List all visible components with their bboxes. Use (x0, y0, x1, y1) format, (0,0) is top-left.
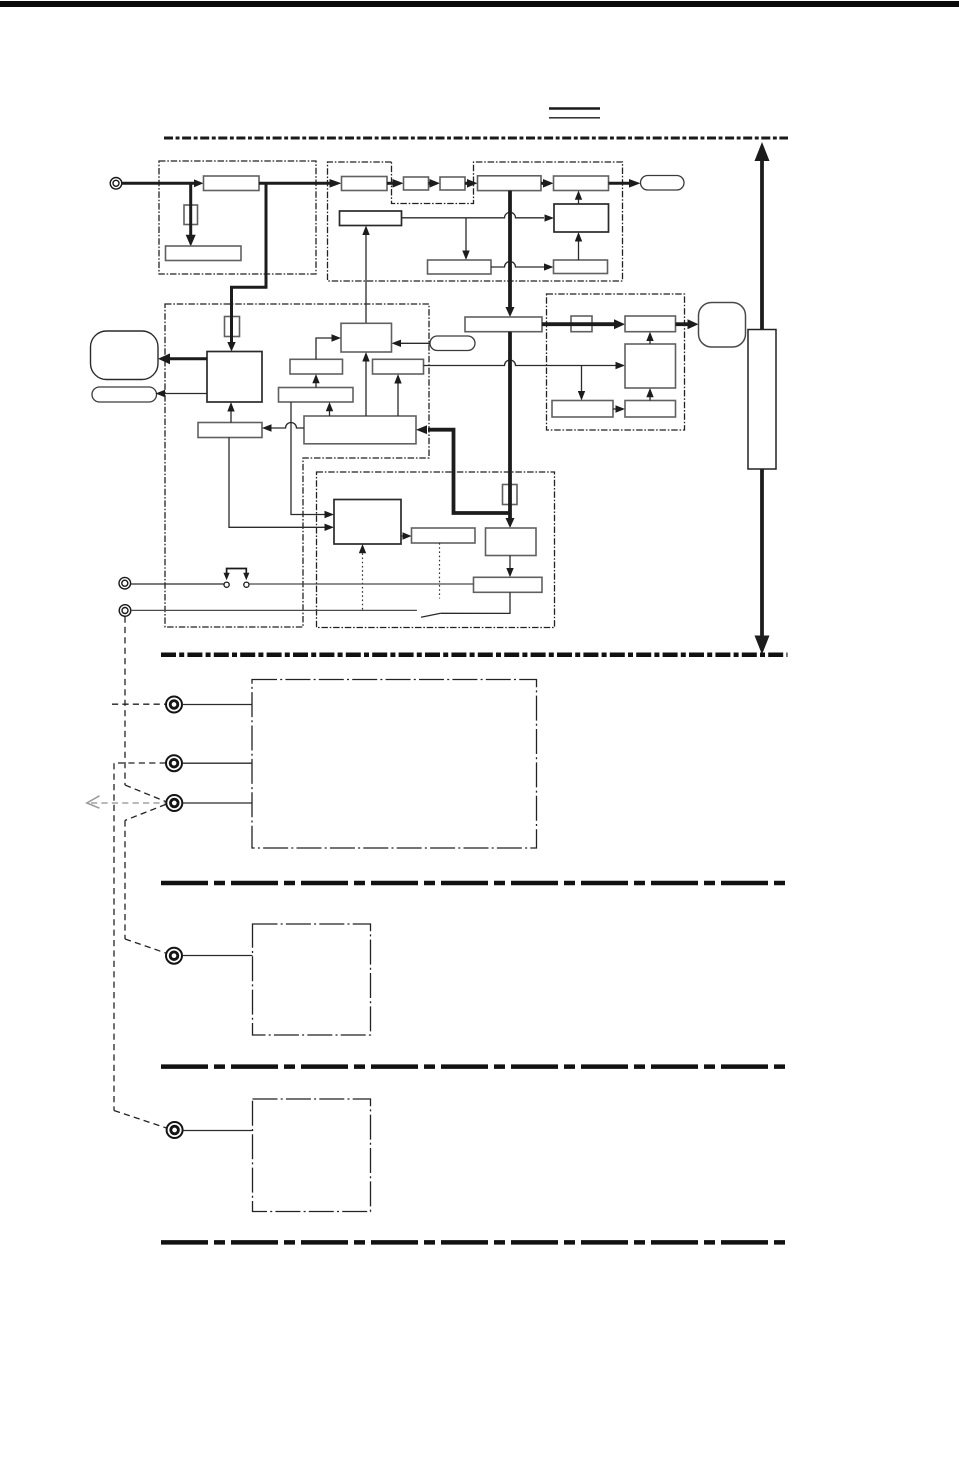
wire: discriminator up to limiter (578, 242, 580, 261)
antenna input connector (110, 178, 122, 190)
block: chroma amp (341, 323, 392, 352)
block: AGC detector (166, 246, 242, 261)
connector: section4 jack (167, 1122, 183, 1138)
block: video output amp (square) (207, 352, 262, 403)
wire: jack to unit T (183, 1130, 253, 1132)
block: limiter (554, 204, 609, 232)
page header rule (0, 1, 959, 7)
wire: ref osc to discriminator with jump (491, 262, 544, 268)
fuse: video branch (225, 317, 240, 337)
wire: audio amp up to audio output (649, 341, 651, 344)
wire: thick branch to chroma osc (428, 430, 510, 513)
section 2 unit box (dash-dot) (252, 680, 537, 849)
wire: tone up to audio amp (649, 397, 651, 401)
grey dashed feed arrow at connector 5 (87, 796, 166, 808)
wire: brightness to video out (230, 412, 232, 423)
wire: IF3 to video det (thick) (465, 182, 468, 185)
wire: video out to stadium (thin) (165, 393, 207, 395)
dashed link to connector 4 (114, 763, 166, 1111)
dashed diagonal into connector 7 (114, 1111, 167, 1129)
block: chroma osc (wide) (304, 416, 416, 444)
dashed chevron lower from connector 5 (125, 804, 166, 820)
wire: osc to brightness with jump (272, 423, 305, 429)
terminal: speaker (stadium) (641, 176, 685, 191)
dashed diagonal into connector 6 (125, 939, 166, 953)
wire: osc up to chroma amp (365, 362, 367, 417)
wire: IF2 to IF3 (thick) (429, 182, 432, 185)
wire: jack to unit S (182, 955, 252, 957)
wire: carrier up from sync sep to AFT (365, 235, 367, 324)
switch terminal b (244, 582, 249, 587)
fuse: bus line (503, 485, 518, 505)
section 4 unit box (dash-dot) (253, 1099, 371, 1212)
block: deemphasis (552, 401, 613, 418)
block: tone (625, 401, 676, 418)
wire: branch down to ref osc (465, 218, 467, 251)
wire: limiter up to audio IF amp (578, 200, 580, 205)
bus double-headed arrow (755, 142, 770, 655)
wire: line 2 open run (131, 609, 417, 611)
group: tuner block (dash-dot) (159, 161, 316, 274)
wire: IF1 to IF2 (thick) (387, 182, 394, 185)
block: audio output (625, 316, 676, 332)
wire: tint stadium to chroma amp (401, 342, 430, 344)
wire: jack2 to unit R (182, 762, 251, 764)
block: IF amp 3 (440, 177, 465, 190)
group: video/chroma L-shaped block (dash-dot) (165, 304, 429, 627)
wire: osc up to APC (329, 411, 331, 416)
dashed control drop from connector 2 (124, 617, 126, 786)
block: sync separator P (334, 500, 401, 545)
block: audio amp (big, right group) (625, 344, 676, 388)
block: video detector (wide) (478, 176, 542, 191)
block: reference oscillator (428, 260, 492, 274)
connector: ext line 2 (119, 605, 131, 617)
block: discriminator (554, 260, 608, 274)
dashed chevron upper into connector 5 (125, 785, 166, 802)
wire: APC up to burst gate (315, 383, 317, 388)
section separator 1 (161, 653, 788, 658)
block: IF amp 2 (404, 177, 429, 190)
group: audio output block (dash-dot) (547, 294, 685, 430)
wire: jack3 to unit R (183, 802, 252, 804)
wire: P to Q (401, 535, 403, 537)
connector: section2 jack 3 (166, 795, 182, 811)
block: IF amp 1 (342, 177, 388, 191)
block: tuner (204, 176, 260, 191)
wire: video det to amp (thick) (541, 182, 544, 185)
group: IF block with notch (dash-dot) (328, 162, 623, 281)
wire: bus down from video detector (thick) (508, 191, 512, 308)
wire: APC down to sync P (crosses groups) (291, 402, 325, 515)
connector: ext line 1 (119, 577, 131, 589)
wire: N down to O (509, 556, 511, 569)
wire: AFT output with jump over bus (402, 212, 545, 217)
section separator 2 (161, 881, 789, 886)
wire: dotted control from Q down (439, 543, 441, 599)
switch gang bracket (227, 569, 247, 574)
wire: tuner output (thick) (259, 182, 332, 185)
wire: burst gate L-route to chroma amp (316, 338, 332, 359)
terminal: stadium below CRT (92, 387, 157, 402)
terminal: speaker barrel (699, 303, 746, 348)
terminal: tint stadium (430, 336, 475, 351)
block: horiz output O (474, 577, 543, 592)
section separator 4 (161, 1240, 789, 1245)
terminal: picture tube (rounded) (91, 331, 159, 380)
wire: brightness down to sync P (229, 438, 325, 528)
fuse: AGC line (184, 205, 198, 225)
block: burst gate (290, 359, 343, 374)
connector: section2 jack 2 (166, 755, 182, 771)
wire: line 1 to switch (131, 583, 224, 585)
wire: lever to O bottom (441, 592, 510, 613)
block: vert osc Q (412, 528, 476, 543)
section 1 top boundary (dash-dot) (164, 137, 788, 140)
connector: section3 jack (166, 948, 182, 964)
wire: switch to horiz output O (249, 583, 473, 585)
connector: section2 jack 1 (166, 697, 182, 713)
section separator 3 (161, 1064, 789, 1069)
block: audio IF amp (554, 176, 609, 191)
wire: to speaker out (thick) (609, 182, 631, 185)
title underline double rule (549, 107, 600, 109)
wire: antenna to tuner (thick) (122, 182, 195, 185)
block: horiz osc N (486, 528, 537, 556)
section 3 unit box (dash-dot) (253, 924, 371, 1035)
block: APC (279, 388, 354, 403)
wire: dotted control up into P (362, 553, 364, 610)
connector strip (tall rectangle over bus arrow) (748, 330, 776, 470)
wire: jack1 to unit R (182, 704, 251, 706)
block: brightness control (198, 423, 262, 438)
wire: osc up to killer (397, 384, 399, 417)
block: AFT (340, 211, 402, 226)
block: killer (373, 359, 424, 374)
group: sync/deflection block (dash-dot) (317, 472, 555, 628)
wire: branch down to deemphasis (581, 366, 583, 392)
wire: deemphasis to tone (613, 408, 616, 410)
switch lever (open) (421, 613, 441, 617)
wire: audio output to speaker (thick) (676, 322, 689, 326)
wire: killer to audio group with jump over bus (424, 360, 616, 366)
wire: video out to CRT (thick) (169, 357, 207, 360)
fuse: audio line (horizontal) (571, 316, 592, 332)
dashed control continues down (124, 820, 126, 939)
dashed stub to connector 3 (112, 703, 166, 705)
block: audio det (wide mid) (465, 317, 542, 332)
switch terminal a (224, 582, 229, 587)
